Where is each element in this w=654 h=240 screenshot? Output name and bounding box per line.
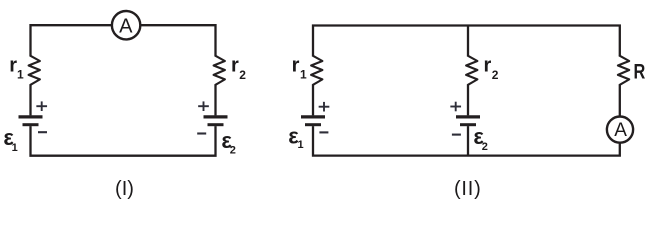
svg-text:r: r: [292, 54, 300, 76]
wire: circuit I left lower segment + bottom wire + right lower segment: [31, 126, 216, 156]
plus sign of E2 (circuit II): [450, 106, 461, 108]
svg-text:2: 2: [230, 145, 236, 157]
resistor R (circuit II): [618, 56, 629, 85]
minus sign of E1 (circuit I): [38, 131, 47, 133]
minus sign of E1 (circuit II): [319, 131, 328, 133]
svg-text:2: 2: [239, 68, 246, 82]
battery cell E1 (circuit II): long plate: [301, 115, 325, 118]
svg-text:2: 2: [482, 141, 488, 153]
plus sign of E2 (circuit I): [198, 105, 209, 107]
ammeter A (circuit II) circle: [607, 117, 633, 143]
svg-text:2: 2: [492, 68, 499, 82]
wire: circuit I right middle segment: [214, 84, 216, 115]
svg-text:A: A: [614, 120, 627, 141]
svg-text:r: r: [231, 54, 239, 76]
wire: circuit II top side with corners: [313, 26, 620, 57]
battery cell E1 (circuit I): long plate: [19, 115, 43, 118]
svg-text:r: r: [484, 54, 492, 76]
svg-text:(II): (II): [454, 178, 482, 200]
battery cell E2 (circuit I): short plate: [208, 123, 224, 126]
resistor r1 (circuit II): [311, 56, 322, 85]
ammeter A (circuit I) circle: [112, 11, 140, 39]
battery cell E2 (circuit II): short plate: [460, 123, 476, 126]
resistor r1 (circuit I): [29, 56, 40, 85]
wire: circuit II left middle segment: [312, 84, 314, 115]
svg-text:1: 1: [12, 142, 18, 154]
plus sign of E1 (circuit I): [36, 105, 47, 107]
resistor r2 (circuit I): [214, 56, 225, 85]
minus sign of E2 (circuit II): [452, 134, 461, 136]
battery cell E1 (circuit II): short plate: [305, 123, 321, 126]
svg-text:A: A: [119, 15, 133, 37]
svg-text:1: 1: [300, 68, 307, 82]
svg-text:R: R: [634, 61, 646, 85]
svg-text:(I): (I): [115, 178, 134, 200]
battery cell E2 (circuit I): long plate: [204, 115, 228, 118]
svg-text:1: 1: [17, 68, 24, 82]
wire: circuit II middle branch lower lead: [467, 126, 469, 156]
wire: circuit I top side with corners: [31, 25, 216, 56]
plus sign of E1 (circuit II): [319, 106, 330, 108]
resistor r2 (circuit II): [466, 56, 477, 85]
wire: circuit II middle branch top lead: [467, 26, 469, 57]
battery cell E1 (circuit I): short plate: [23, 123, 39, 126]
minus sign of E2 (circuit I): [197, 132, 206, 134]
wire: circuit I left middle segment: [29, 84, 31, 115]
battery cell E2 (circuit II): long plate: [456, 115, 480, 118]
wire: circuit II bottom side: [313, 126, 620, 156]
svg-text:1: 1: [298, 139, 304, 151]
wire: circuit II middle middle segment: [467, 84, 469, 115]
wire: circuit II right segment between R and ammeter: [619, 84, 621, 117]
